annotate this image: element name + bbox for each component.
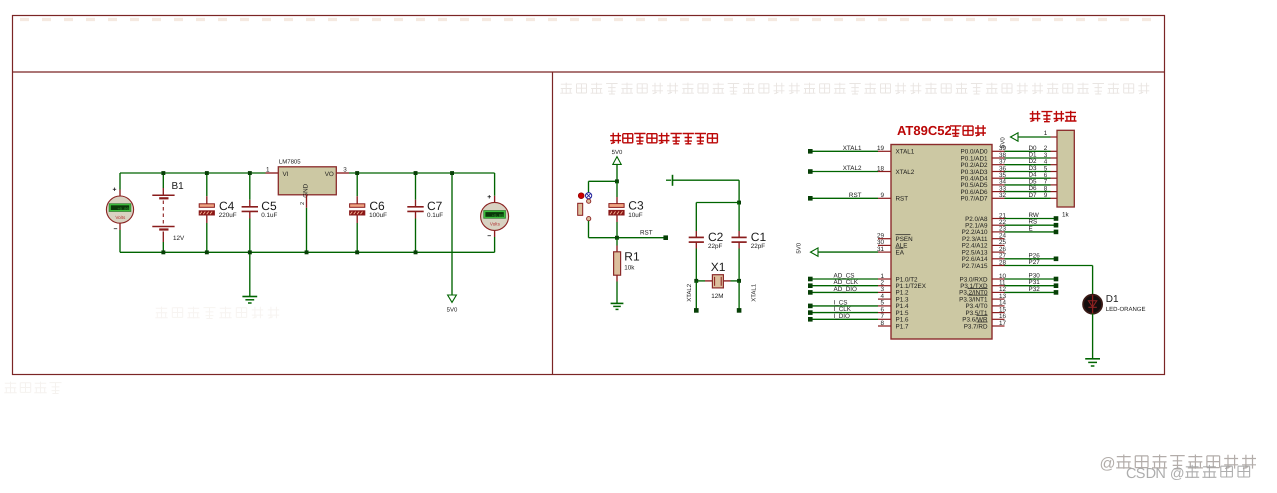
- svg-text:100uF: 100uF: [369, 212, 387, 219]
- svg-text:LED-ORANGE: LED-ORANGE: [1106, 306, 1146, 313]
- svg-text:N: N: [1155, 466, 1165, 482]
- svg-text:P1.7: P1.7: [896, 323, 909, 330]
- svg-text:XTAL1: XTAL1: [751, 283, 758, 302]
- svg-text:+: +: [487, 194, 491, 201]
- svg-text:I_DIO: I_DIO: [834, 313, 851, 320]
- svg-text:AT89C52: AT89C52: [897, 123, 952, 138]
- svg-text:22pF: 22pF: [751, 243, 766, 250]
- svg-text:−: −: [114, 226, 118, 233]
- svg-text:17: 17: [999, 320, 1007, 327]
- svg-text:XTAL1: XTAL1: [896, 149, 915, 156]
- svg-text:10k: 10k: [624, 264, 635, 271]
- svg-text:@: @: [1100, 456, 1116, 473]
- svg-text:5V0: 5V0: [1000, 137, 1007, 148]
- svg-text:C3: C3: [628, 199, 644, 213]
- svg-text:P3.7/RD: P3.7/RD: [964, 323, 988, 330]
- svg-text:P0.7/AD7: P0.7/AD7: [961, 196, 988, 203]
- svg-text:12M: 12M: [711, 293, 723, 300]
- svg-text:12V: 12V: [173, 235, 185, 242]
- svg-text:R1: R1: [624, 250, 640, 264]
- svg-text:22pF: 22pF: [708, 243, 723, 250]
- svg-text:31: 31: [877, 246, 885, 253]
- svg-text:C7: C7: [427, 199, 443, 213]
- svg-text:18: 18: [877, 165, 885, 172]
- svg-text:XTAL1: XTAL1: [843, 145, 862, 152]
- svg-text:XTAL2: XTAL2: [843, 165, 862, 172]
- svg-text:D1: D1: [1106, 294, 1119, 305]
- svg-text:EA: EA: [896, 249, 905, 256]
- svg-text:5V0: 5V0: [447, 307, 458, 314]
- svg-text:19: 19: [877, 145, 885, 152]
- svg-text:5V0: 5V0: [612, 149, 623, 156]
- svg-text:9: 9: [1044, 192, 1048, 199]
- svg-text:E: E: [1029, 225, 1033, 232]
- svg-text:3: 3: [343, 166, 347, 173]
- svg-text:P2.7/A15: P2.7/A15: [962, 263, 988, 270]
- svg-text:+: +: [113, 187, 117, 194]
- svg-text:1: 1: [1044, 130, 1048, 137]
- svg-text:Volts: Volts: [490, 222, 501, 227]
- svg-text:+0.00: +0.00: [117, 207, 129, 212]
- svg-text:B1: B1: [172, 181, 185, 192]
- svg-text:VO: VO: [325, 171, 334, 178]
- svg-text:RST: RST: [896, 196, 909, 203]
- svg-text:RST: RST: [640, 230, 653, 237]
- svg-text:−: −: [487, 233, 491, 240]
- svg-text:X1: X1: [711, 260, 726, 274]
- svg-text:S: S: [1136, 466, 1146, 482]
- svg-text:P27: P27: [1029, 259, 1041, 266]
- svg-text:@: @: [1170, 466, 1185, 482]
- svg-text:C6: C6: [369, 199, 385, 213]
- svg-text:P32: P32: [1029, 286, 1041, 293]
- svg-text:+0.00: +0.00: [492, 214, 504, 219]
- svg-text:C1: C1: [751, 230, 767, 244]
- svg-text:D7: D7: [1029, 192, 1038, 199]
- svg-text:9: 9: [880, 192, 884, 199]
- svg-text:8: 8: [880, 320, 884, 327]
- svg-text:0.1uF: 0.1uF: [427, 212, 443, 219]
- svg-text:VI: VI: [283, 171, 289, 178]
- svg-text:Volts: Volts: [115, 215, 126, 220]
- svg-text:LM7805: LM7805: [279, 158, 301, 165]
- svg-text:C4: C4: [219, 199, 235, 213]
- svg-text:1k: 1k: [1062, 211, 1070, 218]
- svg-text:220uF: 220uF: [219, 212, 237, 219]
- svg-text:C5: C5: [261, 199, 277, 213]
- svg-text:XTAL2: XTAL2: [896, 169, 915, 176]
- svg-text:RST: RST: [849, 192, 862, 199]
- svg-text:1: 1: [266, 166, 270, 173]
- svg-text:5V0: 5V0: [796, 242, 803, 253]
- svg-text:C2: C2: [708, 230, 724, 244]
- svg-text:AD_DIO: AD_DIO: [834, 286, 858, 293]
- svg-text:XTAL2: XTAL2: [686, 283, 693, 302]
- svg-text:2: 2: [300, 202, 306, 205]
- svg-text:10uF: 10uF: [628, 212, 643, 219]
- svg-text:0.1uF: 0.1uF: [261, 212, 277, 219]
